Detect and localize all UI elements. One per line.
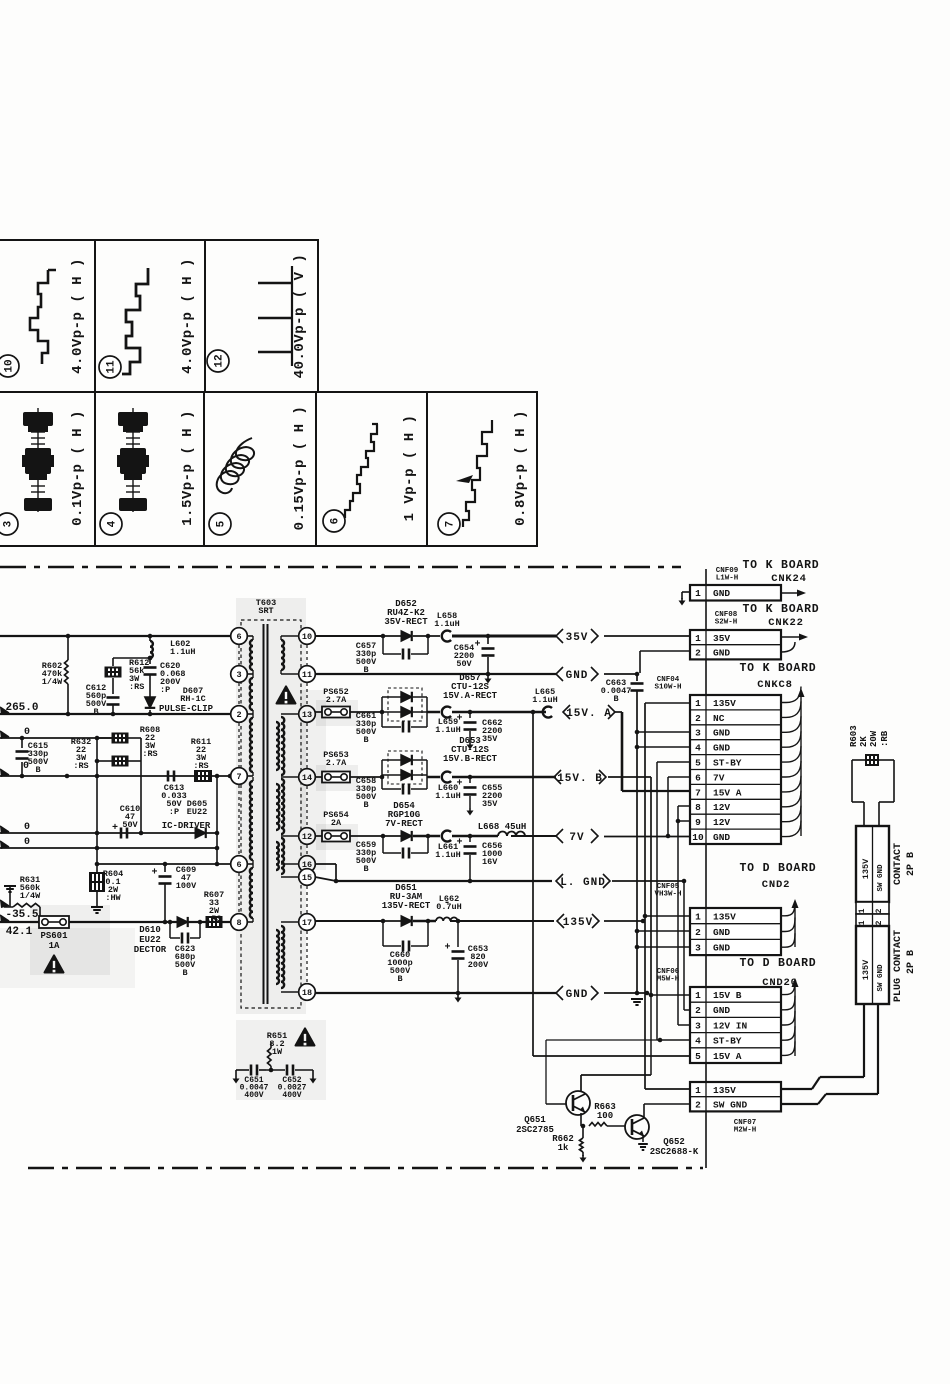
svg-text:B: B	[35, 765, 40, 775]
svg-text:12V: 12V	[713, 817, 730, 828]
svg-text:B: B	[182, 968, 187, 978]
svg-text:+: +	[444, 943, 450, 954]
transistor Q652	[625, 1115, 649, 1139]
svg-text:8: 8	[236, 918, 241, 928]
svg-text:20W: 20W	[869, 730, 879, 747]
left primary circuit	[0, 635, 239, 637]
capacitor C610	[120, 828, 123, 839]
svg-text:35V: 35V	[713, 633, 730, 644]
capacitor C660	[382, 921, 384, 946]
svg-text:35V: 35V	[482, 734, 498, 744]
svg-text:GND: GND	[713, 728, 730, 739]
svg-text:TO K BOARD: TO K BOARD	[739, 662, 816, 675]
svg-text:CNK24: CNK24	[771, 573, 807, 585]
waveform table	[0, 240, 537, 546]
svg-text:0.15Vp-p ( H ): 0.15Vp-p ( H )	[292, 406, 308, 531]
capacitor C656	[468, 834, 473, 839]
svg-text:200V: 200V	[468, 960, 489, 970]
svg-text:EU22: EU22	[139, 935, 161, 945]
warning triangle	[296, 1028, 315, 1045]
svg-text:16V: 16V	[482, 857, 498, 867]
svg-text:0: 0	[24, 822, 30, 833]
svg-text:3: 3	[236, 670, 241, 680]
svg-text:2A: 2A	[331, 818, 342, 828]
7V bus to CNF04 pin6	[668, 776, 690, 778]
GND2 rail	[315, 992, 556, 994]
svg-text:0: 0	[24, 837, 30, 848]
svg-text:1: 1	[695, 588, 701, 599]
capacitor C613	[167, 771, 170, 782]
svg-text:+: +	[112, 823, 118, 834]
svg-text:15V.A-RECT: 15V.A-RECT	[443, 691, 498, 701]
svg-text:9: 9	[695, 817, 701, 828]
fuse PS654	[315, 835, 322, 837]
capacitor C659	[382, 836, 384, 853]
svg-text:SW GND: SW GND	[713, 1099, 748, 1110]
svg-text:10: 10	[302, 632, 312, 642]
svg-text::HW: :HW	[105, 893, 121, 903]
resistor R602	[67, 636, 69, 660]
svg-text:2: 2	[695, 1005, 701, 1016]
svg-text:2P B: 2P B	[906, 950, 917, 974]
svg-text:L668 45uH: L668 45uH	[478, 822, 527, 832]
svg-text:GND: GND	[713, 647, 730, 658]
svg-text:3: 3	[3, 520, 15, 527]
CONTACT 2P B connector	[856, 826, 889, 902]
svg-text:1: 1	[858, 920, 867, 925]
svg-text:6: 6	[330, 518, 342, 525]
PLUG CONTACT 2P B connector	[856, 926, 889, 1004]
capacitor C657	[382, 636, 384, 654]
GND bus with C663	[635, 672, 640, 677]
svg-text:B: B	[613, 694, 618, 704]
capacitor C662	[468, 710, 473, 715]
svg-text:2.7A: 2.7A	[326, 758, 347, 768]
transistor Q651	[566, 1091, 590, 1115]
svg-text:5: 5	[216, 520, 228, 527]
svg-text:CNK22: CNK22	[768, 617, 804, 629]
L.GND to CNF06 pin2	[682, 879, 687, 884]
svg-text:35V-RECT: 35V-RECT	[384, 617, 428, 627]
svg-text:EU22: EU22	[187, 807, 207, 817]
svg-text:Q651: Q651	[524, 1115, 546, 1125]
svg-text:15V B: 15V B	[713, 990, 742, 1001]
svg-text:15V A: 15V A	[713, 787, 742, 798]
fuse PS653	[315, 776, 322, 778]
resistor R611	[194, 770, 212, 782]
svg-text:PLUG CONTACT: PLUG CONTACT	[893, 930, 904, 1002]
svg-text:0.8Vp-p ( H ): 0.8Vp-p ( H )	[513, 410, 529, 526]
svg-text:GND: GND	[713, 588, 730, 599]
svg-text::RS: :RS	[73, 761, 88, 771]
svg-text::P: :P	[160, 685, 170, 695]
svg-text:2: 2	[695, 713, 701, 724]
svg-text:5: 5	[695, 1051, 701, 1062]
svg-text:GND: GND	[713, 943, 730, 954]
svg-text:1.1uH: 1.1uH	[435, 791, 461, 801]
svg-text:2: 2	[695, 927, 701, 938]
svg-text:11: 11	[302, 670, 312, 680]
svg-text:2P B: 2P B	[906, 852, 917, 876]
capacitor C623	[168, 920, 173, 925]
svg-text:1/4W: 1/4W	[42, 677, 63, 687]
svg-text:4: 4	[107, 520, 119, 527]
svg-text:TO D BOARD: TO D BOARD	[739, 862, 816, 875]
resistor R612	[113, 657, 150, 659]
135V rail to SW bus	[641, 919, 646, 924]
svg-text:D610: D610	[139, 925, 161, 935]
warning triangle	[277, 686, 296, 703]
svg-text:12V IN: 12V IN	[713, 1020, 748, 1031]
resistor R604	[95, 862, 100, 867]
svg-text:0.7uH: 0.7uH	[436, 902, 462, 912]
svg-text:1: 1	[695, 1085, 701, 1096]
svg-text:2: 2	[875, 920, 884, 925]
svg-text:50V: 50V	[122, 820, 138, 830]
svg-text:15: 15	[302, 873, 312, 883]
svg-text:1: 1	[695, 990, 701, 1001]
svg-text:GND: GND	[713, 1005, 730, 1016]
svg-text:100V: 100V	[176, 881, 197, 891]
warning triangle	[45, 955, 64, 972]
svg-text:12V: 12V	[713, 802, 730, 813]
svg-text:S2W-H: S2W-H	[715, 619, 738, 627]
svg-text:NC: NC	[713, 713, 725, 724]
svg-text:1.1uH: 1.1uH	[434, 619, 460, 629]
svg-text:1/4W: 1/4W	[20, 891, 41, 901]
svg-text:M5W-H: M5W-H	[657, 976, 680, 984]
svg-text:GND: GND	[713, 743, 730, 754]
resistor R663	[589, 1123, 607, 1127]
svg-text:PULSE-CLIP: PULSE-CLIP	[159, 704, 214, 714]
svg-text:1.1uH: 1.1uH	[170, 647, 196, 657]
svg-text:+: +	[456, 714, 462, 725]
svg-text:135V-RECT: 135V-RECT	[382, 901, 431, 911]
dual diode D653	[388, 751, 422, 784]
svg-text:50V: 50V	[456, 659, 472, 669]
svg-text::RB: :RB	[880, 730, 890, 747]
svg-text::RS: :RS	[129, 682, 144, 692]
svg-text:5: 5	[695, 757, 701, 768]
svg-text:CND2: CND2	[762, 879, 790, 891]
resistor R608	[112, 733, 129, 744]
dual diode D657	[388, 688, 422, 721]
15V.B bus to CNF06 pin1	[608, 776, 651, 778]
board edge line	[705, 569, 707, 1168]
inductor L661	[442, 831, 451, 842]
svg-text:+: +	[456, 779, 462, 790]
svg-text:1.1uH: 1.1uH	[532, 695, 558, 705]
svg-text:DECTOR: DECTOR	[134, 945, 167, 955]
svg-text:7V-RECT: 7V-RECT	[385, 819, 423, 829]
svg-text:TO K BOARD: TO K BOARD	[742, 603, 819, 616]
svg-text:1: 1	[858, 908, 867, 913]
svg-text:S10W-H: S10W-H	[654, 684, 681, 692]
svg-text:SRT: SRT	[258, 606, 273, 616]
svg-text:ST-BY: ST-BY	[713, 757, 742, 768]
inductor L668	[498, 832, 525, 836]
15V A wire to CNF06 pin5	[531, 710, 536, 715]
svg-text:1: 1	[695, 633, 701, 644]
svg-text:40.0Vp-p ( V ): 40.0Vp-p ( V )	[292, 254, 308, 379]
svg-text:2K: 2K	[859, 736, 869, 747]
svg-text:R603: R603	[849, 725, 859, 747]
svg-text:18: 18	[302, 988, 312, 998]
svg-text::RS: :RS	[142, 749, 157, 759]
wires to CNF07	[863, 1004, 865, 1077]
svg-text:2: 2	[236, 710, 241, 720]
svg-text:0.1Vp-p ( H ): 0.1Vp-p ( H )	[70, 410, 86, 526]
svg-text:15V A: 15V A	[713, 1051, 742, 1062]
svg-text:265.0: 265.0	[5, 702, 38, 714]
svg-text:4: 4	[695, 743, 701, 754]
svg-text:35V: 35V	[482, 799, 498, 809]
svg-text:IC-DRIVER: IC-DRIVER	[162, 821, 211, 831]
svg-text:6: 6	[236, 860, 241, 870]
svg-text:B: B	[93, 707, 98, 717]
svg-text:7V: 7V	[713, 772, 725, 783]
svg-text:135V: 135V	[713, 698, 736, 709]
resistor R632	[112, 756, 129, 767]
transformer pins	[231, 628, 248, 645]
capacitor C620	[144, 666, 157, 669]
svg-text:3: 3	[695, 943, 701, 954]
svg-text:2: 2	[875, 908, 884, 913]
CNF05 pin1 135V stub	[643, 914, 648, 919]
svg-text:L. GND: L. GND	[560, 877, 606, 889]
ST-BY bus	[657, 761, 690, 763]
135V rectifier row	[315, 920, 383, 922]
svg-text:7V: 7V	[569, 832, 584, 844]
svg-text:GND: GND	[713, 927, 730, 938]
capacitors C651 C652 line	[236, 1069, 249, 1071]
inductor L602	[148, 634, 153, 639]
svg-text:2: 2	[695, 1099, 701, 1110]
svg-text:15V. A: 15V. A	[566, 708, 612, 720]
svg-text:B: B	[397, 974, 402, 984]
svg-text:6: 6	[236, 632, 241, 642]
board outline dash-dot border	[0, 566, 681, 569]
svg-text:4: 4	[695, 1036, 701, 1047]
svg-text::RS: :RS	[206, 914, 221, 924]
svg-text:15V.B-RECT: 15V.B-RECT	[443, 754, 498, 764]
svg-text:L1W-H: L1W-H	[716, 575, 739, 583]
resistor R662	[582, 1126, 584, 1138]
capacitor C663	[631, 682, 644, 685]
inductor L660	[442, 772, 451, 783]
svg-text:B: B	[363, 735, 368, 745]
svg-text:2SC2785: 2SC2785	[516, 1125, 554, 1135]
svg-text:2.7A: 2.7A	[326, 695, 347, 705]
svg-text:CNKC8: CNKC8	[757, 679, 793, 691]
wire 15V.A to CNF04 pin7	[615, 711, 622, 713]
capacitor C661	[382, 726, 401, 728]
capacitor C615	[20, 736, 25, 741]
capacitor C654	[486, 634, 491, 639]
svg-text:+: +	[151, 868, 157, 879]
svg-text:10: 10	[692, 832, 704, 843]
diode D605 IC driver	[195, 828, 206, 838]
svg-text:4.0Vp-p ( H ): 4.0Vp-p ( H )	[180, 258, 196, 374]
svg-text::P: :P	[169, 807, 179, 817]
svg-text:1.5Vp-p ( H ): 1.5Vp-p ( H )	[180, 410, 196, 526]
svg-text:1: 1	[695, 698, 701, 709]
svg-text:100: 100	[597, 1111, 613, 1121]
svg-text:10: 10	[4, 359, 16, 372]
inductor L658	[442, 631, 451, 642]
fuse PS652	[315, 711, 322, 713]
svg-text:2SC2688-K: 2SC2688-K	[650, 1147, 699, 1157]
svg-text:35V: 35V	[566, 632, 589, 644]
svg-text:SW GND: SW GND	[877, 964, 885, 992]
svg-text:SW GND: SW GND	[877, 864, 885, 892]
capacitor C653	[456, 919, 461, 924]
svg-text:B: B	[363, 800, 368, 810]
svg-text:1 Vp-p ( H ): 1 Vp-p ( H )	[402, 415, 418, 522]
GND rail	[315, 673, 556, 675]
capacitor C612	[107, 696, 120, 699]
svg-text:17: 17	[302, 918, 312, 928]
svg-text:+: +	[474, 640, 480, 651]
svg-text:B: B	[363, 864, 368, 874]
capacitor C655	[468, 775, 473, 780]
svg-text:1.1uH: 1.1uH	[435, 850, 461, 860]
svg-text:+: +	[456, 838, 462, 849]
svg-text:GND: GND	[566, 670, 589, 682]
svg-text:2: 2	[695, 647, 701, 658]
svg-text:7: 7	[445, 521, 457, 528]
inductor L659	[442, 707, 451, 718]
capacitor C609	[163, 862, 168, 867]
inductor L662	[436, 917, 458, 921]
svg-text:3: 3	[695, 728, 701, 739]
svg-text:TO D BOARD: TO D BOARD	[739, 957, 816, 970]
svg-text:6: 6	[695, 772, 701, 783]
35V rectifier row	[315, 635, 383, 637]
svg-text:M2W-H: M2W-H	[734, 1127, 757, 1135]
svg-text::RS: :RS	[193, 761, 208, 771]
svg-text:3: 3	[695, 1020, 701, 1031]
svg-text:CONTACT: CONTACT	[893, 843, 904, 885]
svg-text:4.0Vp-p ( H ): 4.0Vp-p ( H )	[70, 258, 86, 374]
svg-text:Q652: Q652	[663, 1137, 685, 1147]
svg-text:135V: 135V	[861, 959, 871, 980]
svg-text:1: 1	[695, 911, 701, 922]
svg-text:ST-BY: ST-BY	[713, 1036, 742, 1047]
svg-text:0: 0	[24, 727, 30, 738]
svg-text:1.1uH: 1.1uH	[435, 725, 461, 735]
svg-text:12: 12	[214, 354, 226, 367]
svg-text:15V. B: 15V. B	[557, 773, 603, 785]
inductor L665	[543, 707, 552, 718]
svg-text:TO K BOARD: TO K BOARD	[742, 559, 819, 572]
transformer T603	[236, 598, 306, 1014]
resistor R607	[206, 916, 223, 928]
svg-text:GND: GND	[713, 832, 730, 843]
svg-text:11: 11	[106, 360, 118, 374]
svg-text:135V: 135V	[713, 911, 736, 922]
svg-text:8: 8	[695, 802, 701, 813]
svg-text:135V: 135V	[563, 917, 593, 929]
scan noise	[300, 690, 326, 870]
svg-text:RH-1C: RH-1C	[180, 694, 206, 704]
svg-text:7: 7	[236, 772, 241, 782]
12V bus	[678, 805, 690, 807]
diode D610	[177, 917, 188, 927]
fuse PS601	[30, 905, 110, 975]
L.GND rail	[315, 863, 336, 865]
diode D607 pulse clip	[145, 697, 156, 708]
135V bus CNF04 pin1 to CNF07 pin1	[645, 702, 690, 704]
svg-text:GND: GND	[566, 989, 589, 1001]
svg-text:135V: 135V	[713, 1085, 736, 1096]
svg-text:1k: 1k	[558, 1143, 569, 1153]
svg-text:135V: 135V	[861, 858, 871, 879]
svg-text:7: 7	[695, 787, 701, 798]
capacitor C658	[382, 788, 401, 790]
